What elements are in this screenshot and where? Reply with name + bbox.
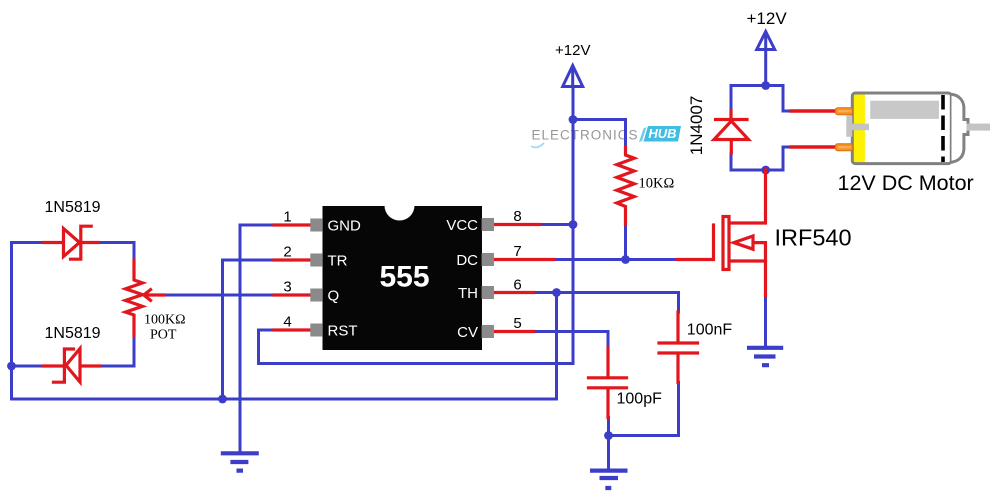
svg-text:7: 7 bbox=[513, 243, 521, 260]
svg-text:TR: TR bbox=[328, 253, 348, 270]
svg-text:RST: RST bbox=[328, 323, 358, 340]
svg-text:CV: CV bbox=[457, 324, 478, 341]
svg-text:ELECTRONICS: ELECTRONICS bbox=[532, 128, 639, 143]
svg-text:100pF: 100pF bbox=[617, 391, 663, 408]
svg-text:POT: POT bbox=[150, 328, 177, 343]
svg-text:Q: Q bbox=[328, 288, 340, 305]
svg-text:6: 6 bbox=[513, 277, 521, 294]
svg-text:1N4007: 1N4007 bbox=[687, 96, 706, 156]
svg-text:3: 3 bbox=[283, 279, 291, 296]
svg-text:5: 5 bbox=[513, 315, 521, 332]
svg-text:10KΩ: 10KΩ bbox=[639, 176, 675, 192]
svg-text:4: 4 bbox=[283, 314, 291, 331]
svg-text:+12V: +12V bbox=[747, 9, 788, 28]
svg-text:+12V: +12V bbox=[555, 42, 590, 59]
svg-text:VCC: VCC bbox=[446, 217, 478, 234]
svg-text:GND: GND bbox=[328, 218, 362, 235]
svg-text:1N5819: 1N5819 bbox=[45, 199, 101, 216]
svg-text:1N5819: 1N5819 bbox=[45, 325, 101, 342]
svg-text:2: 2 bbox=[283, 244, 291, 261]
svg-text:HUB: HUB bbox=[648, 126, 676, 141]
svg-text:555: 555 bbox=[379, 261, 429, 294]
svg-text:IRF540: IRF540 bbox=[775, 225, 852, 251]
svg-text:100KΩ: 100KΩ bbox=[144, 313, 186, 328]
svg-text:DC: DC bbox=[456, 252, 478, 269]
svg-text:12V DC Motor: 12V DC Motor bbox=[838, 171, 974, 195]
svg-text:TH: TH bbox=[458, 285, 478, 302]
svg-text:1: 1 bbox=[283, 209, 291, 226]
svg-text:100nF: 100nF bbox=[687, 322, 733, 339]
svg-text:8: 8 bbox=[513, 208, 521, 225]
